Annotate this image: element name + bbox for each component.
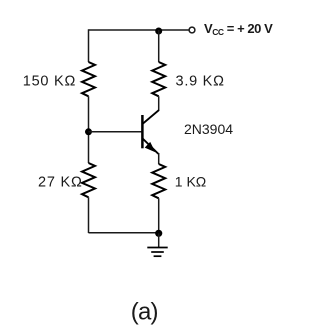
wire top rail to Vcc terminal [159,29,189,31]
wire right bottom (1K to ground node) [158,198,160,233]
ground stub wire [158,233,160,247]
terminal Vcc open circle [189,27,195,33]
wire top rail [89,29,159,31]
wire left bottom (27K to bottom rail) [88,197,90,233]
transistor base bar [141,115,144,148]
transistor emitter arrowhead [145,142,156,152]
transistor Q1 2N3904 [142,110,159,154]
resistor R1 150 K [82,62,95,96]
svg-text:(a): (a) [131,298,158,325]
node junction dot top (collector branch to Vcc) [155,28,162,35]
wire right branch top (Vcc to 3.9K) [158,30,160,62]
wire emitter vertical (transistor to 1K) [158,153,160,164]
wire collector vertical (3.9K to transistor) [158,96,160,110]
ground bar 3 [154,255,162,257]
svg-text:1 KΩ: 1 KΩ [175,173,206,189]
wire left branch top (Vcc rail to 150K) [88,29,90,62]
wire left middle (150K to node) [88,96,90,163]
node junction dot ground node [155,230,162,237]
resistor RC 3.9 K [152,62,165,96]
svg-text:2N3904: 2N3904 [184,121,233,137]
node junction dot base node [85,128,92,135]
wire base (node to transistor base) [89,131,142,133]
transistor collector lead [142,110,159,124]
ground [147,233,167,256]
transistor emitter lead [142,138,158,154]
wire bottom rail [89,232,159,234]
svg-text:VCC = + 20 V: VCC = + 20 V [204,21,273,37]
svg-text:27 KΩ: 27 KΩ [38,174,83,190]
svg-text:150 KΩ: 150 KΩ [23,74,76,90]
ground bar 2 [151,251,164,253]
ground bar 1 [147,247,167,249]
resistor R2 27 K [82,163,95,197]
svg-text:3.9 KΩ: 3.9 KΩ [176,74,225,90]
resistor RE 1 K [152,164,165,198]
